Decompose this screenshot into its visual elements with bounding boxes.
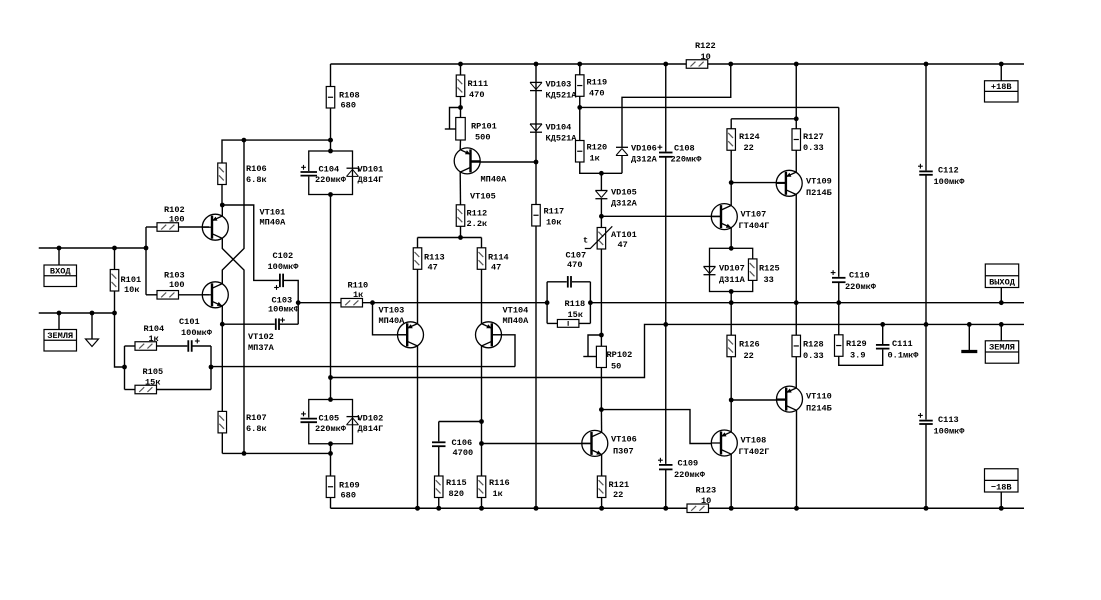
svg-text:R129: R129 — [846, 339, 867, 349]
svg-text:П307: П307 — [613, 447, 634, 457]
resistor R111 — [456, 62, 488, 108]
wire ground line — [39, 311, 117, 316]
node C105 box — [309, 397, 353, 446]
capacitor C105 — [300, 412, 347, 435]
svg-text:R103: R103 — [164, 271, 185, 281]
resistor R119 — [576, 62, 608, 110]
svg-text:ГТ402Г: ГТ402Г — [739, 447, 770, 457]
svg-text:R107: R107 — [246, 413, 267, 423]
node C104 box — [309, 149, 353, 197]
svg-text:МП40А: МП40А — [260, 218, 287, 228]
diode VD104 — [530, 123, 577, 144]
svg-text:R127: R127 — [803, 132, 824, 142]
svg-text:ЗЕМЛЯ: ЗЕМЛЯ — [47, 331, 73, 341]
wire C105 to R109 — [330, 444, 332, 454]
node divider right — [209, 346, 214, 390]
svg-text:АТ101: АТ101 — [611, 230, 637, 240]
resistor R105 — [125, 367, 212, 394]
svg-text:50: 50 — [611, 362, 621, 372]
capacitor C106 — [431, 422, 482, 459]
svg-text:C108: C108 — [674, 144, 695, 154]
svg-text:VD104: VD104 — [546, 123, 572, 133]
svg-text:VD103: VD103 — [546, 80, 572, 90]
wire top rail — [331, 63, 1025, 65]
svg-text:22: 22 — [744, 143, 754, 153]
svg-text:100мкФ: 100мкФ — [181, 328, 213, 338]
svg-text:t: t — [583, 236, 588, 246]
svg-text:R121: R121 — [609, 480, 630, 490]
resistor R127 — [792, 62, 824, 173]
chassis ground — [961, 322, 977, 352]
svg-text:6.8к: 6.8к — [246, 424, 267, 434]
svg-text:10к: 10к — [124, 285, 139, 295]
svg-text:ГТ404Г: ГТ404Г — [739, 221, 770, 231]
transistor VT101 — [202, 208, 286, 241]
capacitor C111 — [875, 322, 919, 361]
svg-text:VT107: VT107 — [741, 210, 767, 220]
svg-text:C104: C104 — [319, 165, 340, 175]
svg-text:VD101: VD101 — [358, 165, 384, 175]
svg-text:500: 500 — [475, 133, 490, 143]
svg-text:МП40А: МП40А — [379, 316, 406, 326]
wire collector cross VT102 — [222, 140, 244, 284]
resistor R115 — [435, 446, 467, 510]
wire ground rail — [331, 324, 1025, 377]
svg-text:100мкФ: 100мкФ — [268, 305, 300, 315]
svg-text:470: 470 — [469, 90, 484, 100]
svg-text:33: 33 — [764, 275, 774, 285]
svg-text:R101: R101 — [121, 275, 142, 285]
resistor R109 — [326, 453, 359, 508]
wire VT110 base — [731, 399, 786, 401]
capacitor C101 — [157, 317, 213, 353]
resistor R125 — [748, 259, 779, 285]
svg-text:10к: 10к — [546, 218, 561, 228]
wire R122 jog — [622, 64, 731, 147]
resistor R103 — [146, 271, 209, 300]
wire VT107 emitter — [729, 228, 734, 251]
svg-text:П214Б: П214Б — [806, 404, 832, 414]
svg-text:C107: C107 — [566, 251, 587, 261]
svg-text:R115: R115 — [446, 478, 467, 488]
terminal +18V — [985, 62, 1019, 102]
svg-text:R108: R108 — [339, 91, 360, 101]
svg-text:VD107: VD107 — [719, 264, 745, 274]
svg-text:47: 47 — [428, 263, 438, 273]
svg-text:RP102: RP102 — [607, 350, 633, 360]
wire C102 to node — [283, 280, 301, 324]
resistor R108 — [326, 64, 359, 151]
svg-text:4700: 4700 — [453, 448, 474, 458]
svg-text:47: 47 — [618, 240, 628, 250]
node VD107 box — [710, 248, 753, 294]
transistor VT108 — [711, 400, 769, 457]
diode VD105 — [595, 173, 637, 218]
svg-text:C109: C109 — [678, 459, 699, 469]
capacitor C108 — [658, 62, 703, 165]
svg-text:680: 680 — [341, 491, 356, 501]
svg-text:22: 22 — [613, 490, 623, 500]
svg-text:КД521А: КД521А — [546, 134, 578, 144]
svg-text:0.1мкФ: 0.1мкФ — [888, 351, 920, 361]
ground symbol — [86, 313, 99, 347]
svg-text:47: 47 — [491, 263, 501, 273]
capacitor C103 — [222, 296, 299, 331]
svg-text:VD105: VD105 — [611, 188, 637, 198]
svg-text:R102: R102 — [164, 205, 185, 215]
svg-text:VD102: VD102 — [358, 414, 384, 424]
transistor VT102 — [202, 282, 274, 353]
wire RP101 to VT105 — [459, 140, 461, 150]
svg-text:C106: C106 — [452, 438, 473, 448]
svg-text:VT105: VT105 — [470, 192, 496, 202]
svg-text:R117: R117 — [544, 207, 565, 217]
terminal VYHOD (output) — [985, 264, 1018, 305]
svg-text:VT103: VT103 — [379, 306, 405, 316]
svg-text:680: 680 — [341, 101, 356, 111]
resistor R113 — [413, 238, 444, 324]
svg-text:22: 22 — [744, 351, 754, 361]
wire mid rail right — [580, 106, 839, 108]
zener VD101 — [347, 165, 384, 186]
wire base rail vertical — [145, 227, 147, 295]
resistor R116 — [477, 476, 509, 511]
svg-text:ВХОД: ВХОД — [50, 266, 71, 276]
resistor R107 — [218, 324, 267, 453]
svg-text:Д312А: Д312А — [631, 155, 658, 165]
resistor R126 — [727, 303, 760, 403]
svg-text:ЗЕМЛЯ: ЗЕМЛЯ — [989, 343, 1015, 353]
wire VT108 base — [601, 410, 711, 444]
svg-text:R109: R109 — [339, 481, 360, 491]
resistor R128 — [792, 303, 824, 388]
svg-text:100мкФ: 100мкФ — [934, 427, 966, 437]
svg-text:0.33: 0.33 — [803, 143, 824, 153]
terminal ZEMLYA right (ground) — [985, 322, 1018, 363]
svg-text:R124: R124 — [739, 132, 760, 142]
junction dots bottom rail — [415, 506, 1004, 511]
diode VD107 — [704, 264, 746, 286]
svg-text:C102: C102 — [273, 251, 294, 261]
svg-text:R120: R120 — [587, 143, 608, 153]
wire collector cross VT101 — [222, 238, 244, 453]
wire bottom rail — [331, 507, 1025, 509]
svg-text:220мкФ: 220мкФ — [671, 155, 703, 165]
wire R101 to divider — [115, 313, 125, 367]
transistor VT106 — [582, 410, 637, 457]
capacitor C113 — [918, 324, 965, 510]
wire VT104 collector — [479, 346, 484, 476]
wire C102/C103 node to R110 — [298, 302, 341, 304]
svg-text:220мкФ: 220мкФ — [845, 282, 877, 292]
wire box to output rail — [729, 292, 734, 306]
svg-text:R111: R111 — [468, 79, 489, 89]
transistor VT104 — [476, 306, 530, 348]
svg-text:R106: R106 — [246, 164, 267, 174]
resistor R120 — [576, 107, 623, 175]
zener VD102 — [347, 414, 384, 435]
wire VT110 collector — [794, 410, 799, 510]
capacitor C109 — [658, 458, 706, 511]
resistor R121 — [597, 455, 629, 511]
resistor R112 — [456, 172, 487, 240]
svg-text:VT108: VT108 — [741, 436, 767, 446]
svg-text:R114: R114 — [488, 253, 509, 263]
svg-text:820: 820 — [449, 489, 464, 499]
terminal VHOD (input) — [44, 248, 77, 287]
capacitor C104 — [300, 165, 347, 186]
svg-text:1к: 1к — [590, 154, 600, 164]
svg-text:C101: C101 — [179, 317, 200, 327]
wire VT105 base — [471, 161, 537, 163]
capacitor C112 — [918, 62, 965, 327]
svg-text:R105: R105 — [143, 367, 164, 377]
svg-text:220мкФ: 220мкФ — [674, 470, 706, 480]
svg-text:+18В: +18В — [991, 82, 1012, 92]
svg-text:3.9: 3.9 — [850, 351, 865, 361]
wire VT108 collector — [729, 454, 734, 511]
wire bottom left junction — [222, 451, 333, 456]
wire VT109 base — [731, 182, 786, 184]
wire input line — [39, 246, 149, 251]
svg-text:0.33: 0.33 — [803, 351, 824, 361]
capacitor C110 — [831, 107, 877, 334]
svg-text:R104: R104 — [144, 324, 165, 334]
svg-text:R112: R112 — [467, 209, 488, 219]
trimmer RP101 — [445, 105, 497, 142]
svg-text:10: 10 — [701, 52, 711, 62]
svg-text:Д814Г: Д814Г — [358, 424, 384, 434]
transistor VT109 — [776, 170, 832, 198]
resistor R106 — [218, 138, 333, 205]
capacitor C102 — [268, 251, 300, 290]
resistor R124 — [727, 116, 799, 185]
svg-text:VT110: VT110 — [806, 392, 832, 402]
network C107 R118 box — [545, 282, 593, 324]
svg-text:470: 470 — [567, 260, 582, 270]
svg-text:C113: C113 — [938, 415, 959, 425]
svg-text:R126: R126 — [739, 340, 760, 350]
svg-text:VT106: VT106 — [611, 435, 637, 445]
wire VT102 emitter node — [220, 306, 225, 327]
thermistor RT101 — [583, 216, 637, 335]
wire VT109 collector — [794, 194, 799, 305]
node VT101 emitter — [220, 203, 225, 217]
svg-text:Д814Г: Д814Г — [358, 175, 384, 185]
resistor R104 — [125, 324, 165, 350]
svg-text:VT102: VT102 — [248, 332, 274, 342]
transistor VT103 — [379, 306, 424, 348]
resistor R122 — [686, 41, 733, 68]
wire VT103 collector — [415, 346, 420, 511]
resistor R110 — [341, 281, 547, 307]
transistor VT110 — [777, 386, 832, 413]
svg-text:Д312А: Д312А — [611, 199, 638, 209]
wire output rail — [590, 302, 1024, 304]
svg-text:ВЫХОД: ВЫХОД — [989, 278, 1016, 288]
svg-text:15к: 15к — [568, 310, 583, 320]
trimmer RP102 — [583, 333, 632, 412]
wire VT103 base — [373, 303, 408, 335]
resistor R118 — [557, 299, 585, 327]
svg-text:R110: R110 — [348, 281, 369, 291]
svg-text:100: 100 — [169, 215, 184, 225]
diode VD106 — [616, 144, 658, 174]
svg-text:R122: R122 — [695, 41, 716, 51]
svg-text:R125: R125 — [759, 264, 780, 274]
svg-text:R128: R128 — [803, 340, 824, 350]
svg-text:C111: C111 — [892, 339, 913, 349]
wire R112 node — [418, 237, 482, 239]
svg-text:470: 470 — [589, 89, 604, 99]
capacitor C107 — [566, 251, 587, 289]
svg-text:VD106: VD106 — [631, 144, 657, 154]
svg-text:R119: R119 — [587, 78, 608, 88]
resistor R117 — [532, 162, 564, 511]
svg-text:C110: C110 — [849, 271, 870, 281]
transistor VT105 — [454, 148, 507, 202]
resistor R129 — [835, 335, 883, 366]
svg-text:VT104: VT104 — [503, 306, 529, 316]
node divider left — [122, 346, 127, 390]
svg-text:VT101: VT101 — [260, 208, 286, 218]
svg-text:П214Б: П214Б — [806, 188, 832, 198]
svg-text:100мкФ: 100мкФ — [268, 262, 300, 272]
svg-text:−18В: −18В — [991, 482, 1012, 492]
terminal -18V — [985, 469, 1019, 511]
svg-text:C105: C105 — [319, 414, 340, 424]
resistor R102 — [146, 205, 209, 231]
svg-text:R113: R113 — [424, 253, 445, 263]
svg-text:VT109: VT109 — [806, 177, 832, 187]
svg-text:220мкФ: 220мкФ — [315, 175, 347, 185]
resistor R114 — [477, 238, 508, 324]
terminal ZEMLYA left (ground) — [44, 313, 77, 351]
wire C108 down — [663, 157, 668, 465]
svg-text:15к: 15к — [145, 378, 160, 388]
svg-text:МП37А: МП37А — [248, 343, 275, 353]
svg-text:100мкФ: 100мкФ — [934, 177, 966, 187]
svg-text:2.2к: 2.2к — [467, 219, 488, 229]
resistor R101 — [110, 248, 141, 313]
resistor R123 — [687, 486, 716, 513]
diode VD103 — [530, 80, 577, 101]
svg-text:C112: C112 — [938, 166, 959, 176]
svg-text:1к: 1к — [353, 290, 363, 300]
svg-text:220мкФ: 220мкФ — [315, 424, 347, 434]
svg-text:1к: 1к — [149, 334, 159, 344]
svg-text:6.8к: 6.8к — [246, 175, 267, 185]
svg-text:RP101: RP101 — [471, 122, 497, 132]
svg-text:Д311А: Д311А — [719, 275, 746, 285]
wire diode chain — [534, 62, 539, 165]
svg-text:МП40А: МП40А — [503, 316, 530, 326]
svg-text:10: 10 — [701, 496, 711, 506]
wire VT107 base — [601, 215, 721, 217]
svg-text:100: 100 — [169, 280, 184, 290]
svg-text:1к: 1к — [493, 489, 503, 499]
svg-text:R123: R123 — [696, 486, 717, 496]
svg-text:R116: R116 — [489, 478, 510, 488]
wire VT106 base — [482, 443, 592, 445]
svg-text:R118: R118 — [565, 299, 586, 309]
wire feedback to VT104 base — [211, 335, 515, 367]
transistor VT107 — [711, 183, 769, 231]
svg-text:КД521А: КД521А — [546, 91, 578, 101]
svg-text:МП40А: МП40А — [481, 175, 508, 185]
wire VT101 emitter to C102 — [222, 205, 280, 280]
wire mid supply — [328, 195, 333, 400]
